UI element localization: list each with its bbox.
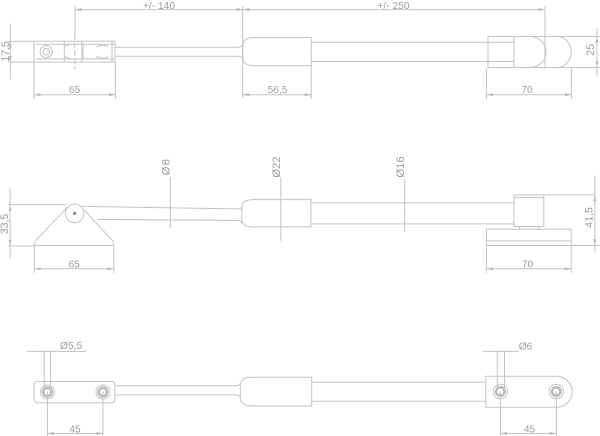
svg-text:33,5: 33,5 <box>0 214 11 235</box>
dimension 70 (below base plate, middle view) <box>486 247 571 273</box>
label Ø5,5 with leader lines <box>27 351 85 390</box>
screw hole of left bracket <box>40 46 52 58</box>
neck between block and plate <box>520 227 539 230</box>
cylinder body (top view) <box>238 38 311 66</box>
right end bracket (top view) <box>488 36 600 67</box>
extension line at cylinder left x=243 (shared by top dims and 56,5) <box>242 6 244 98</box>
dimension 33,5 (left vertical, middle view) <box>9 189 67 258</box>
svg-text:Ø22: Ø22 <box>271 156 283 177</box>
piston rod (bottom view) <box>115 386 236 395</box>
dimension line +/- 140 and +/- 250 (shared horizontal line) <box>75 8 545 11</box>
label Ø8 with leader <box>169 178 171 228</box>
svg-text:Ø5,5: Ø5,5 <box>60 341 82 352</box>
svg-text:65: 65 <box>69 260 81 271</box>
label Ø16 with leader <box>404 179 406 232</box>
cylinder body (middle view) <box>237 200 311 227</box>
svg-text:56,5: 56,5 <box>268 85 288 96</box>
dimension 56,5 (below cylinder, top view) <box>243 67 312 99</box>
svg-text:17,5: 17,5 <box>0 41 12 62</box>
hole right 2 <box>549 384 563 398</box>
telescopic tube (bottom view) <box>312 382 486 401</box>
svg-text:41,5: 41,5 <box>583 207 595 228</box>
label Ø6 with leader lines <box>483 351 518 389</box>
end block (middle view) <box>514 195 544 227</box>
svg-text:Ø16: Ø16 <box>395 156 407 177</box>
piston rod (middle view) <box>81 206 236 220</box>
screw hole left 2 <box>96 385 110 399</box>
triangular mounting bracket (side view) <box>34 207 114 245</box>
dimension 41,5 (right vertical, middle view) <box>544 176 600 252</box>
piston rod (top view) <box>115 47 238 56</box>
svg-text:Ø8: Ø8 <box>160 158 172 176</box>
svg-text:70: 70 <box>522 260 534 271</box>
svg-text:25: 25 <box>585 44 597 56</box>
svg-text:65: 65 <box>69 85 81 96</box>
svg-text:Ø6: Ø6 <box>519 342 533 353</box>
svg-text:45: 45 <box>69 425 81 436</box>
svg-text:+/- 140: +/- 140 <box>143 1 175 12</box>
svg-text:70: 70 <box>521 85 533 96</box>
dimension 70 (below right bracket, top view) <box>486 69 571 99</box>
base plate (middle view) <box>486 229 571 245</box>
svg-text:45: 45 <box>524 425 536 436</box>
dimension 25 (right vertical, top view) <box>595 29 598 77</box>
pivot center dot <box>73 212 76 215</box>
pivot circle of triangle bracket <box>65 204 84 223</box>
centerline through left hinge (dashed) <box>74 33 76 69</box>
label Ø22 with leader <box>280 178 282 241</box>
cylinder body (bottom view) <box>236 377 312 406</box>
dimension 65 (below left bracket, top view) <box>34 63 115 99</box>
left mounting bracket (top view) <box>34 41 115 62</box>
telescopic tube (middle view) <box>311 203 514 224</box>
dimension 17,5 (left vertical) <box>8 24 34 79</box>
telescopic tube (top view) <box>311 42 488 61</box>
screw hole left 1 <box>41 385 55 399</box>
left flat bar (plan view) <box>34 381 115 402</box>
svg-text:+/- 250: +/- 250 <box>377 1 409 12</box>
dimension 45 (below right bar) <box>500 392 556 436</box>
dimension 65 (below triangle bracket) <box>34 247 114 273</box>
extension/center line at right bracket pivot x=545 <box>544 6 546 68</box>
right flat bar with rounded end (plan view) <box>486 376 572 407</box>
hole right 1 <box>493 384 507 398</box>
dimension 45 (below left bar) <box>47 392 103 436</box>
extension line at hinge center x=75 <box>74 6 76 33</box>
